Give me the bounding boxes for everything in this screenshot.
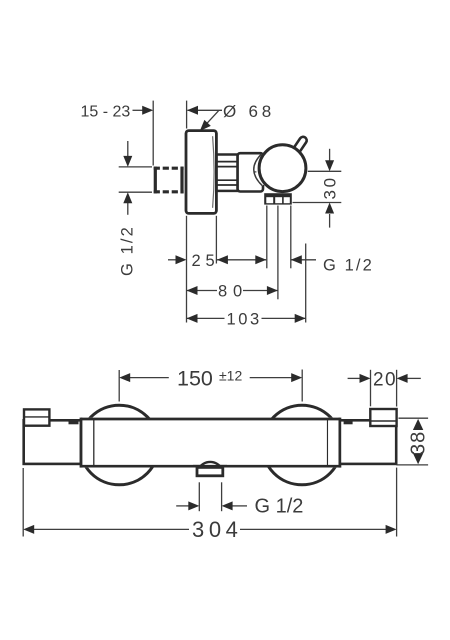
arrow right 15-23 xyxy=(142,106,153,115)
valve body xyxy=(238,153,263,191)
svg-text:150: 150 xyxy=(177,367,213,391)
svg-text:20: 20 xyxy=(373,369,397,390)
arrow right 103 xyxy=(295,314,306,323)
right escutcheon xyxy=(370,409,396,426)
dim G1/2 bottom xyxy=(176,482,247,511)
arrow left G1/2 bottom xyxy=(222,501,233,510)
right ring xyxy=(327,418,340,468)
outlet union (bottom view) xyxy=(197,467,223,475)
arrow left 150 xyxy=(119,373,130,382)
knob xyxy=(259,145,306,192)
arrow down G1/2 left xyxy=(123,156,132,167)
arrow right G1/2 bottom xyxy=(188,501,199,510)
dim 304 xyxy=(23,468,396,537)
arrow left G1/2 span xyxy=(291,255,302,264)
arrow right 150 xyxy=(291,373,302,382)
right step stub xyxy=(344,421,353,424)
svg-text:30: 30 xyxy=(321,175,340,199)
left step stub xyxy=(69,421,79,424)
knob skirt edge xyxy=(254,154,262,185)
svg-text:80: 80 xyxy=(218,283,248,301)
extension lines below top view xyxy=(187,206,306,323)
escutcheon flange xyxy=(186,131,216,214)
supply connector xyxy=(154,167,184,194)
svg-text:G 1/2: G 1/2 xyxy=(323,256,374,274)
arrow left 20 xyxy=(397,374,408,383)
outlet dome xyxy=(198,462,222,470)
svg-text:38: 38 xyxy=(407,431,429,455)
svg-text:G 1/2: G 1/2 xyxy=(255,496,304,518)
dim 80 xyxy=(187,290,278,292)
arrow down 38 xyxy=(413,453,423,464)
knob skirt fill xyxy=(254,154,272,185)
adjusting nut serrations xyxy=(216,155,237,191)
dim 30 xyxy=(293,149,342,228)
svg-text:25: 25 xyxy=(192,252,220,270)
barrel xyxy=(81,419,340,466)
arrow left 25 xyxy=(217,255,228,264)
arrow right 80 xyxy=(267,286,278,295)
svg-text:103: 103 xyxy=(227,311,262,329)
dim 150 +-12 xyxy=(119,370,302,402)
arrow right 304 xyxy=(386,525,397,534)
arrow right G1/2 span xyxy=(255,255,266,264)
left end cylinder xyxy=(24,420,81,464)
arrow up 38 xyxy=(413,419,423,430)
arrow left 103 xyxy=(187,314,198,323)
leader arrow O68 xyxy=(200,120,211,131)
dim G1/2 left xyxy=(119,141,152,215)
barrel bottom line over dome xyxy=(193,465,227,468)
dim 103 xyxy=(187,317,306,319)
left ring xyxy=(81,418,94,468)
left escutcheon xyxy=(24,409,49,425)
arrow left 304 xyxy=(23,525,34,534)
arrow right 25 xyxy=(176,255,187,264)
dim 25 row xyxy=(168,259,316,261)
knob skirt split tick xyxy=(253,171,256,173)
right end cylinder xyxy=(340,420,396,464)
svg-text:Ø 68: Ø 68 xyxy=(223,102,275,121)
arrow right 20 xyxy=(360,374,371,383)
outlet union (top view) xyxy=(264,193,292,204)
right knob circle xyxy=(262,405,342,485)
svg-text:±12: ±12 xyxy=(219,367,242,383)
svg-text:15 - 23: 15 - 23 xyxy=(81,104,131,121)
left knob circle xyxy=(79,405,159,485)
arrow up 30 xyxy=(325,203,334,214)
arrow left 15-23 xyxy=(187,106,198,115)
lever pin xyxy=(292,135,308,154)
svg-text:G 1/2: G 1/2 xyxy=(119,225,137,276)
dim 15-23 xyxy=(133,101,223,166)
arrow down 30 xyxy=(325,160,334,171)
svg-text:304: 304 xyxy=(192,517,243,542)
dim 38 xyxy=(396,418,428,465)
leader line O68 xyxy=(207,111,219,124)
flange dome inner line xyxy=(213,136,215,208)
arrow up G1/2 left xyxy=(123,192,132,203)
dim 20 xyxy=(348,370,421,407)
arrow left 80 xyxy=(187,286,198,295)
